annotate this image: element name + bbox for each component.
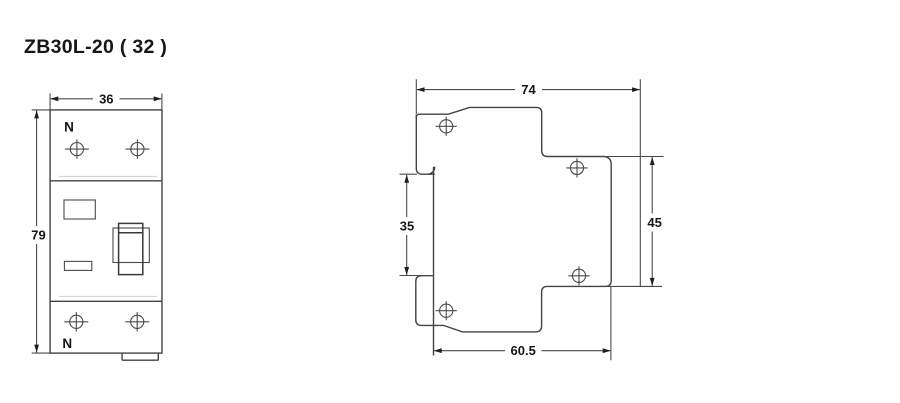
window rectangle small [64, 261, 91, 270]
dimension 79 label [31, 228, 45, 243]
title ZB30L-20 (32) [24, 36, 167, 58]
svg-text:74: 74 [521, 82, 536, 97]
dimension 45 line and arrows [650, 157, 655, 286]
terminal screw top-left [65, 139, 89, 158]
dimension 60.5 label [511, 343, 536, 358]
screw hole top-right [566, 158, 587, 177]
svg-text:N: N [64, 120, 74, 135]
svg-text:ZB30L-20 ( 32 ): ZB30L-20 ( 32 ) [24, 36, 167, 58]
terminal screw bottom-left [64, 312, 88, 331]
front view body outline [50, 110, 162, 353]
window rectangle large [64, 200, 95, 219]
front view bottom foot tab [122, 353, 158, 360]
front view bottom section divider [50, 300, 162, 302]
terminal screw bottom-right [125, 312, 149, 331]
dimension 60.5 line and arrows [434, 348, 611, 353]
label N top [64, 120, 74, 135]
svg-text:45: 45 [647, 215, 661, 230]
svg-text:79: 79 [31, 228, 45, 243]
dimension 45 extension lines [600, 157, 664, 287]
screw hole bottom-left [436, 301, 457, 320]
dimension 36 label [99, 91, 113, 106]
dimension 79 extension lines [32, 110, 50, 353]
dimension 74 extension lines [415, 79, 417, 114]
dimension 60.5 extension line right [610, 287, 612, 360]
svg-text:60.5: 60.5 [511, 343, 536, 358]
toggle switch bezel [113, 228, 149, 263]
dimension 74 label [521, 82, 536, 97]
side view profile outline [416, 107, 611, 355]
svg-text:35: 35 [400, 219, 414, 234]
front view faint seam line lower [59, 295, 157, 297]
screw hole bottom-right [568, 266, 589, 285]
front view faint seam line upper [59, 175, 157, 177]
dimension 35 label [400, 219, 414, 234]
screw hole top-left [436, 117, 457, 136]
dimension 74 line and arrows [417, 87, 641, 92]
dimension 36 line and arrows [50, 96, 161, 101]
label N bottom [62, 336, 72, 351]
front view top section divider [50, 180, 162, 182]
terminal screw top-right [125, 139, 149, 158]
svg-text:N: N [62, 336, 72, 351]
dimension 35 line and arrows [404, 175, 409, 275]
dimension 35 extension lines [400, 174, 434, 275]
dimension 79 line and arrows [34, 110, 39, 352]
dimension 36 extension lines [50, 94, 162, 110]
toggle switch handle [119, 223, 143, 274]
dimension 45 label [647, 215, 661, 230]
side view front face line [639, 79, 641, 286]
svg-text:36: 36 [99, 91, 113, 106]
